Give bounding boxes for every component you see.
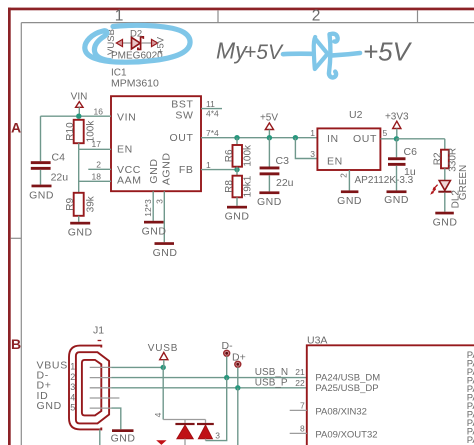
svg-text:8: 8 bbox=[300, 423, 305, 433]
TVS array corner triangle bbox=[156, 440, 166, 445]
svg-text:GREEN: GREEN bbox=[458, 165, 469, 201]
junction R6 top bbox=[234, 135, 239, 140]
svg-text:AAM: AAM bbox=[117, 175, 142, 187]
svg-text:7: 7 bbox=[300, 400, 305, 410]
svg-text:GND: GND bbox=[29, 190, 54, 202]
wire J1 pin1 VBUS bbox=[90, 366, 112, 368]
wire D+ down bbox=[237, 388, 239, 445]
wire J1 pin4 ID stub bbox=[90, 397, 120, 399]
junction D- bbox=[224, 375, 229, 380]
svg-text:D-: D- bbox=[222, 340, 234, 352]
svg-text:+3V3: +3V3 bbox=[385, 112, 409, 123]
ground J1 bbox=[111, 429, 136, 444]
wire C4 drop bbox=[40, 116, 42, 161]
svg-text:4: 4 bbox=[153, 412, 163, 417]
junction VUSB bbox=[161, 365, 166, 370]
svg-text:3: 3 bbox=[70, 382, 75, 392]
ground U2 bbox=[337, 190, 362, 207]
ground R9 bbox=[68, 222, 93, 239]
svg-text:22: 22 bbox=[295, 378, 305, 388]
wire U3A pin 7 stub bbox=[290, 409, 307, 411]
wire VUSB to D2 anode bbox=[122, 42, 131, 44]
wire U2 GND stub bbox=[348, 170, 350, 190]
IC U1 box MPM3610 bbox=[111, 96, 201, 191]
junction +5V node bbox=[267, 135, 272, 140]
wire J1 shield down bbox=[99, 429, 101, 445]
IC U3A box bbox=[307, 345, 474, 445]
svg-text:12*3: 12*3 bbox=[143, 199, 153, 217]
svg-text:PA24/USB_DM: PA24/USB_DM bbox=[315, 373, 380, 384]
svg-text:VUSB: VUSB bbox=[148, 343, 178, 354]
svg-text:2: 2 bbox=[70, 372, 75, 382]
supply arrow VUSB (left) bbox=[116, 39, 122, 46]
wire R10 to EN node bbox=[78, 143, 80, 149]
svg-text:330R: 330R bbox=[448, 148, 459, 172]
frame row tick A-B bbox=[11, 237, 22, 239]
supply symbol VIN bbox=[76, 102, 83, 108]
wire VIN rail bbox=[41, 115, 112, 117]
TVS diode 1 cathode bar bbox=[175, 423, 194, 425]
wire C4 to GND bbox=[40, 170, 42, 185]
wire C3 drop bbox=[268, 138, 270, 167]
wire +3V3 drop bbox=[396, 129, 398, 139]
svg-text:A: A bbox=[11, 120, 21, 136]
svg-text:PA25/USB_DP: PA25/USB_DP bbox=[315, 383, 378, 394]
LED emission arrow 1 bbox=[433, 185, 437, 190]
svg-text:2: 2 bbox=[96, 160, 101, 170]
net flag D- bbox=[224, 350, 230, 356]
ground IC GND bbox=[142, 221, 167, 238]
svg-text:R10: R10 bbox=[65, 122, 76, 141]
LED DL2 cathode bar bbox=[438, 191, 451, 193]
frame column tick right bbox=[417, 10, 419, 22]
wire +3V3 to R2 bbox=[397, 138, 445, 140]
svg-text:22u: 22u bbox=[51, 172, 69, 184]
capacitor C4 bbox=[31, 161, 51, 170]
annotation blue circle bbox=[85, 25, 190, 62]
annotation blue diode triangle bbox=[314, 37, 327, 69]
svg-text:5: 5 bbox=[70, 403, 75, 413]
supply symbol VUSB bbox=[160, 352, 168, 359]
capacitor C3 bbox=[260, 167, 280, 176]
svg-text:GND: GND bbox=[433, 217, 458, 229]
IC U2 box AP2112K bbox=[317, 128, 380, 170]
supply symbol +5V bbox=[265, 123, 273, 130]
svg-text:PA: PA bbox=[467, 435, 474, 445]
resistor R8 bbox=[233, 176, 243, 198]
svg-text:18: 18 bbox=[92, 172, 102, 182]
wire R9 to GND bbox=[78, 216, 80, 222]
svg-text:100k: 100k bbox=[243, 144, 254, 167]
wire C6 drop bbox=[396, 139, 398, 158]
TVS diode 2 cathode bar bbox=[197, 423, 214, 425]
svg-text:R2: R2 bbox=[432, 152, 443, 165]
svg-text:GND: GND bbox=[111, 433, 136, 445]
svg-text:B: B bbox=[11, 336, 21, 352]
connector J1 outer shell bbox=[69, 346, 101, 430]
wire LED to GND bbox=[444, 193, 446, 212]
svg-text:D+: D+ bbox=[232, 351, 246, 363]
svg-text:7*4: 7*4 bbox=[206, 128, 219, 138]
diode D2 schottky cathode bar bbox=[138, 37, 143, 50]
wire FB stub bbox=[201, 169, 237, 171]
wire +5V drop bbox=[268, 130, 270, 138]
capacitor C6 bbox=[388, 157, 406, 165]
resistor R6 bbox=[233, 145, 243, 167]
resistor R10 bbox=[74, 120, 84, 143]
svg-text:U3A: U3A bbox=[307, 335, 327, 347]
svg-text:GND: GND bbox=[384, 194, 409, 206]
svg-text:+5V: +5V bbox=[244, 41, 284, 64]
connector J1 middle outline bbox=[76, 352, 109, 423]
ground C4 bbox=[29, 185, 54, 202]
wire R6 to R8 bbox=[236, 167, 238, 176]
frame inner line vertical bbox=[20, 23, 22, 445]
wire EN stub bbox=[79, 148, 111, 150]
svg-text:AGND: AGND bbox=[160, 152, 172, 185]
frame border top bbox=[8, 8, 474, 11]
svg-text:C3: C3 bbox=[276, 155, 290, 167]
frame column tick 1-2 bbox=[217, 10, 219, 22]
frame border left bbox=[8, 8, 11, 445]
LED DL2 bbox=[439, 181, 450, 191]
wire D- to TVS bbox=[206, 378, 227, 441]
svg-text:U2: U2 bbox=[349, 109, 363, 121]
svg-text:GND: GND bbox=[153, 247, 178, 259]
junction +3V3 node bbox=[394, 136, 399, 141]
svg-text:1: 1 bbox=[115, 8, 124, 25]
resistor R9 bbox=[74, 193, 84, 216]
wire TVS diode 1 down bbox=[184, 439, 186, 445]
svg-text:3: 3 bbox=[215, 431, 220, 441]
wire C3 to GND bbox=[268, 175, 270, 191]
frame inner line horizontal bbox=[21, 22, 474, 24]
svg-text:1u: 1u bbox=[404, 166, 416, 178]
LED emission arrow 2 bbox=[431, 189, 435, 194]
ground IC AGND bbox=[153, 242, 178, 259]
resistor R2 bbox=[441, 150, 449, 169]
junction VIN bbox=[76, 114, 81, 119]
svg-text:C4: C4 bbox=[52, 152, 66, 164]
svg-text:21: 21 bbox=[295, 367, 305, 377]
junction FB node bbox=[234, 167, 239, 172]
svg-text:1: 1 bbox=[310, 128, 315, 138]
svg-text:39k: 39k bbox=[86, 195, 97, 212]
wire EN branch vertical bbox=[295, 138, 317, 159]
svg-text:1: 1 bbox=[206, 160, 211, 170]
svg-text:GND: GND bbox=[68, 227, 93, 239]
svg-text:USB_N: USB_N bbox=[255, 367, 288, 378]
wire D2 cathode to +5V bbox=[142, 42, 152, 44]
svg-text:17: 17 bbox=[92, 139, 102, 149]
svg-text:GND: GND bbox=[337, 195, 362, 207]
svg-text:EN: EN bbox=[327, 156, 343, 168]
svg-text:+5V: +5V bbox=[363, 37, 413, 67]
svg-text:GND: GND bbox=[257, 196, 282, 208]
svg-text:USB_P: USB_P bbox=[255, 378, 288, 389]
svg-text:OUT: OUT bbox=[170, 132, 194, 144]
svg-text:R6: R6 bbox=[224, 149, 235, 162]
svg-text:GND: GND bbox=[225, 211, 250, 223]
wire R2 to LED bbox=[444, 168, 446, 180]
wire IC AGND stub bbox=[163, 191, 165, 242]
svg-text:SW: SW bbox=[175, 109, 193, 121]
TVS diode 1 bbox=[177, 425, 193, 439]
TVS diode 2 bbox=[198, 425, 212, 439]
wire VUSB to TVS rail bbox=[162, 367, 164, 419]
svg-text:J1: J1 bbox=[93, 325, 104, 337]
svg-text:3: 3 bbox=[310, 149, 315, 159]
annotation blue diode bar bbox=[329, 34, 338, 78]
svg-text:2: 2 bbox=[312, 8, 321, 25]
wire J1 pin5 GND bbox=[90, 407, 112, 409]
net flag D+ bbox=[235, 361, 241, 367]
wire VUSB symbol drop bbox=[163, 360, 165, 368]
svg-text:1: 1 bbox=[70, 362, 75, 372]
svg-text:FB: FB bbox=[179, 164, 194, 176]
ground C6 bbox=[384, 190, 409, 206]
wire C6 to GND bbox=[396, 166, 398, 191]
wire AAM stub bbox=[79, 180, 111, 182]
wire D+ drop bbox=[237, 367, 239, 388]
svg-text:OUT: OUT bbox=[353, 133, 377, 145]
svg-text:VIN: VIN bbox=[117, 112, 136, 124]
svg-text:PA08/XIN32: PA08/XIN32 bbox=[315, 406, 367, 417]
svg-text:16: 16 bbox=[94, 107, 104, 117]
connector J1 value dash bbox=[98, 340, 102, 342]
svg-text:19k1: 19k1 bbox=[243, 175, 254, 197]
wire BST stub bbox=[201, 108, 222, 110]
svg-text:4: 4 bbox=[70, 392, 75, 402]
wire D- drop bbox=[226, 356, 228, 377]
junction EN branch bbox=[293, 135, 298, 140]
svg-text:D2: D2 bbox=[130, 29, 142, 40]
wire IC GND stub bbox=[152, 191, 154, 221]
wire OUT rail +5V bbox=[201, 137, 317, 139]
wire R6 top bbox=[236, 138, 238, 145]
svg-text:+5V: +5V bbox=[260, 113, 278, 124]
svg-text:PA09/XOUT32: PA09/XOUT32 bbox=[315, 429, 377, 440]
svg-text:EN: EN bbox=[117, 144, 133, 156]
pin names right edge PA column bbox=[467, 350, 474, 445]
svg-text:VIN: VIN bbox=[71, 92, 88, 103]
supply arrow +5V (right) bbox=[152, 39, 158, 46]
ground DL2 bbox=[433, 212, 458, 229]
wire U3A pin 8 stub bbox=[290, 432, 307, 434]
wire R8 to GND bbox=[236, 197, 238, 206]
svg-text:C6: C6 bbox=[404, 146, 418, 158]
svg-text:IN: IN bbox=[327, 133, 339, 145]
wire VIN drop bbox=[78, 107, 80, 116]
wire EN node to R9 bbox=[78, 149, 80, 193]
svg-text:11: 11 bbox=[206, 99, 215, 109]
wire TVS top rail bbox=[163, 420, 205, 423]
ground R8 bbox=[225, 206, 250, 223]
wire VCC stub bbox=[88, 168, 111, 170]
wire TVS diode 2 down bbox=[205, 439, 207, 441]
svg-text:R9: R9 bbox=[65, 197, 76, 210]
svg-text:22u: 22u bbox=[276, 177, 294, 189]
svg-text:5: 5 bbox=[383, 128, 388, 138]
svg-text:3: 3 bbox=[154, 199, 164, 204]
wire R2 top bbox=[444, 139, 446, 150]
connector J1 inner outline bbox=[82, 360, 101, 416]
supply symbol +3V3 bbox=[393, 121, 401, 128]
svg-text:GND: GND bbox=[37, 400, 62, 412]
diode D2 bbox=[132, 37, 141, 49]
ground C3 bbox=[257, 191, 282, 208]
wire U2 OUT to +3V3 node bbox=[380, 138, 396, 140]
svg-text:R8: R8 bbox=[224, 180, 235, 193]
annotation blue wire right bbox=[333, 53, 361, 55]
svg-text:GND: GND bbox=[148, 158, 160, 183]
annotation blue wire left bbox=[283, 51, 312, 56]
wire J1 pin3 D+ bbox=[90, 387, 112, 389]
svg-text:2: 2 bbox=[339, 173, 349, 178]
svg-text:GND: GND bbox=[142, 226, 167, 238]
svg-text:MPM3610: MPM3610 bbox=[111, 78, 159, 90]
junction D+ bbox=[235, 385, 240, 390]
wire J1 pin2 D- bbox=[90, 377, 112, 379]
svg-text:4*4: 4*4 bbox=[206, 109, 219, 119]
